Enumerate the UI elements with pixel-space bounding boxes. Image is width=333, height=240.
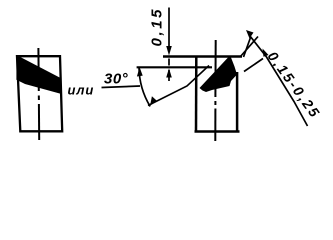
svg-text:или: или — [68, 83, 95, 98]
svg-text:0,15: 0,15 — [149, 7, 166, 47]
svg-text:30°: 30° — [104, 71, 129, 88]
